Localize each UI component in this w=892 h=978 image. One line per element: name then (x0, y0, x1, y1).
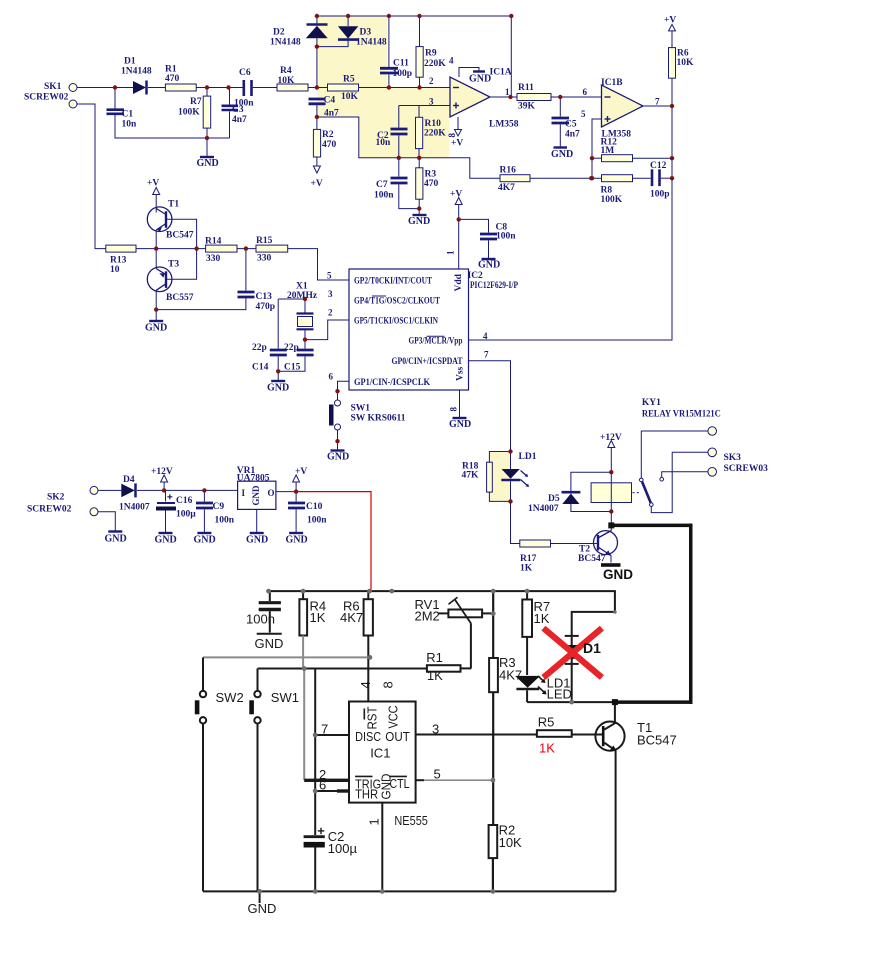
svg-text:5: 5 (327, 271, 332, 281)
svg-text:4: 4 (358, 681, 373, 688)
svg-text:BC557: BC557 (166, 293, 194, 303)
svg-text:7: 7 (655, 97, 660, 107)
svg-text:3: 3 (429, 97, 434, 107)
svg-text:8: 8 (449, 407, 459, 412)
capacitor C15 22p (304, 340, 306, 349)
svg-text:1: 1 (367, 818, 382, 825)
svg-text:C1: C1 (122, 110, 134, 120)
wire pin6 THR (315, 790, 349, 792)
optocoupler LD1 box (489, 452, 511, 501)
svg-text:1N4148: 1N4148 (270, 38, 301, 48)
svg-text:1K: 1K (520, 564, 533, 574)
svg-text:1K: 1K (427, 668, 443, 683)
svg-text:4n7: 4n7 (565, 130, 580, 140)
svg-text:R2: R2 (322, 130, 334, 140)
wire bottom ground rail (203, 890, 616, 892)
diode D5 1N4007 (571, 472, 611, 491)
svg-text:R16: R16 (500, 166, 517, 176)
svg-text:PIC12F629-I/P: PIC12F629-I/P (470, 281, 518, 291)
thick wire relay to LED net (610, 524, 693, 528)
svg-text:C16: C16 (176, 496, 193, 506)
diode D3 1N4148 (347, 16, 349, 26)
capacitor C9 100n (203, 490, 205, 501)
diode D2 1N4148 (316, 16, 318, 24)
svg-text:100µ: 100µ (328, 841, 358, 856)
resistor R3 470 (418, 158, 420, 168)
svg-text:GP5/T1CKI/OSC1/CLKIN: GP5/T1CKI/OSC1/CLKIN (354, 316, 438, 326)
svg-text:+V: +V (450, 190, 462, 200)
svg-text:SW1: SW1 (271, 690, 299, 705)
svg-text:C11: C11 (393, 59, 409, 69)
yellow highlight region (317, 16, 449, 158)
svg-text:47K: 47K (462, 471, 480, 481)
wire SW1/R4/R1 node (258, 668, 427, 670)
transistor T1 BC547 (147, 207, 172, 232)
relay armature (641, 431, 708, 478)
LED in LD1 (510, 452, 512, 470)
capacitor C10 100n (295, 492, 297, 502)
resistor R7 100K (206, 88, 208, 97)
svg-text:+12V: +12V (600, 433, 622, 443)
transistor T3 BC557 (147, 267, 172, 292)
svg-text:GND: GND (603, 567, 633, 582)
IC1 NE555 box (349, 702, 416, 803)
svg-text:470: 470 (424, 179, 439, 189)
svg-text:D2: D2 (273, 28, 285, 38)
svg-text:GND: GND (248, 901, 277, 916)
resistor R14 330 (206, 245, 237, 252)
svg-text:6: 6 (319, 778, 326, 793)
svg-text:3: 3 (432, 722, 439, 737)
svg-text:R4: R4 (280, 66, 292, 76)
svg-text:GND: GND (145, 323, 167, 334)
svg-text:10K: 10K (278, 76, 296, 86)
potentiometer RV1 2M2 (438, 612, 448, 614)
relay NO contact (660, 477, 664, 481)
svg-text:GND: GND (194, 535, 216, 546)
svg-text:RELAY VR15M121C: RELAY VR15M121C (642, 410, 721, 420)
svg-text:20MHz: 20MHz (287, 291, 318, 301)
+12V above C16 (161, 475, 168, 482)
+V above R6 (669, 24, 676, 31)
svg-text:O: O (268, 488, 275, 498)
svg-text:2: 2 (429, 76, 434, 86)
resistor R1 1K (427, 665, 461, 672)
svg-text:8: 8 (381, 681, 396, 688)
capacitor C2 100u (318, 830, 325, 832)
svg-text:10K: 10K (341, 92, 359, 102)
svg-text:1N4007: 1N4007 (119, 503, 150, 513)
transistor T1 BC547 (595, 722, 624, 751)
svg-text:4: 4 (483, 331, 488, 341)
wire pin1 GND (381, 803, 383, 892)
svg-text:10n: 10n (122, 120, 138, 130)
red cross over D1 (543, 628, 602, 677)
capacitor 100n bypass (269, 591, 271, 601)
capacitor C6 100n (243, 80, 246, 96)
wire node down to TRIG (gray) (303, 669, 305, 781)
svg-text:DISC: DISC (355, 729, 381, 744)
svg-text:R15: R15 (256, 236, 273, 246)
svg-text:3: 3 (328, 289, 333, 299)
svg-text:GND: GND (105, 534, 127, 545)
svg-text:220K: 220K (424, 129, 446, 139)
svg-text:R5: R5 (538, 715, 555, 730)
wire IC1B output (643, 105, 672, 107)
capacitor C4 4n7 (309, 98, 326, 101)
wire LED row to T1 collector (527, 701, 615, 703)
ground below C14 (271, 380, 285, 382)
svg-text:8: 8 (447, 133, 457, 138)
svg-text:22p: 22p (252, 343, 267, 353)
resistor R2 470 (316, 117, 318, 129)
capacitor C1 10n (114, 88, 116, 109)
svg-text:BC547: BC547 (166, 231, 194, 241)
resistor R5 10K (328, 84, 359, 91)
LED arrows (538, 676, 545, 682)
ground at IC1A pin4 (459, 68, 479, 78)
junction thick net (608, 522, 614, 528)
wire IC1B +input down (592, 119, 602, 178)
svg-text:6: 6 (329, 372, 334, 382)
svg-text:KY1: KY1 (642, 398, 661, 408)
LED light arrows (521, 471, 528, 477)
resistor R4 10K (277, 84, 308, 91)
svg-text:R9: R9 (425, 49, 437, 59)
svg-text:Vdd: Vdd (454, 273, 464, 291)
svg-text:2M2: 2M2 (415, 609, 440, 624)
svg-text:GND: GND (551, 149, 573, 160)
svg-text:100p: 100p (650, 190, 670, 200)
svg-text:LM358: LM358 (489, 120, 519, 130)
svg-text:R17: R17 (520, 554, 537, 564)
svg-text:SCREW03: SCREW03 (724, 464, 769, 474)
svg-text:7: 7 (484, 350, 489, 360)
svg-text:100n: 100n (307, 516, 327, 526)
resistor R13 10 (106, 245, 136, 252)
+V above C10 (293, 475, 300, 482)
wire SK2 pin2 ground (98, 512, 115, 531)
svg-text:R3: R3 (425, 170, 437, 180)
wire SK1 pin1 to D1 (77, 87, 133, 89)
capacitor C11 100p (388, 16, 390, 67)
capacitor C7 100n (398, 158, 400, 177)
svg-text:220K: 220K (424, 59, 446, 69)
resistor R8 100K (602, 175, 633, 182)
capacitor C12 100p (651, 169, 654, 186)
LED LD1 (515, 676, 540, 688)
svg-text:100n: 100n (496, 232, 516, 242)
svg-text:D1: D1 (124, 57, 136, 67)
svg-text:THR: THR (355, 787, 378, 802)
resistor R17 1K (520, 540, 551, 547)
svg-text:GND: GND (379, 774, 394, 800)
svg-text:GND: GND (267, 383, 289, 394)
ground stub bottom (259, 891, 261, 903)
svg-text:C15: C15 (284, 363, 301, 373)
diode D1 1N4148 (133, 81, 146, 94)
svg-text:GND: GND (469, 74, 491, 85)
svg-text:100n: 100n (374, 191, 394, 201)
wire pin3 net (399, 105, 450, 107)
svg-text:SK1: SK1 (44, 82, 62, 92)
switch SW1 KRS0611 (335, 400, 341, 406)
wire R4 to node (gray) (302, 636, 304, 669)
svg-text:I: I (242, 488, 246, 498)
svg-text:+V: +V (664, 16, 676, 26)
wire node to DISC/THR (314, 669, 316, 836)
resistor R7 1K (526, 591, 528, 599)
resistor R2 10K (489, 825, 498, 858)
svg-text:C13: C13 (256, 292, 273, 302)
svg-text:GND: GND (246, 535, 268, 546)
capacitor C8 100n (459, 219, 489, 232)
wire pin5 CTL (416, 779, 424, 781)
svg-text:C5: C5 (565, 120, 577, 130)
svg-text:10: 10 (110, 265, 120, 275)
svg-text:D3: D3 (360, 28, 372, 38)
svg-text:Vss: Vss (456, 366, 466, 381)
capacitor C3 4n7 (229, 88, 231, 105)
wire PIC pin8 ground (459, 390, 461, 417)
svg-text:GP1/CIN-/ICSPCLK: GP1/CIN-/ICSPCLK (354, 378, 431, 388)
resistor R12 1M (592, 157, 602, 159)
svg-text:1K: 1K (539, 741, 555, 756)
ground below R3 (418, 209, 420, 214)
svg-text:R5: R5 (343, 75, 355, 85)
bottom labels (216, 597, 677, 916)
overbar T1G (372, 295, 386, 297)
overbars IC1 (355, 775, 372, 777)
svg-text:4n7: 4n7 (324, 109, 339, 119)
wire top supply rail (269, 591, 615, 702)
svg-text:1K: 1K (310, 610, 326, 625)
svg-text:R11: R11 (518, 83, 534, 93)
svg-text:4: 4 (449, 56, 454, 66)
+V above T1 (153, 188, 160, 195)
svg-text:R14: R14 (205, 237, 222, 247)
svg-text:D5: D5 (548, 494, 560, 504)
svg-text:GP3/MCLR/Vpp: GP3/MCLR/Vpp (409, 337, 463, 347)
svg-text:10K: 10K (499, 835, 522, 850)
svg-text:C14: C14 (252, 363, 269, 373)
connector SK1 SCREW02 (69, 84, 77, 92)
svg-text:GND: GND (197, 158, 219, 169)
ground below R7 (206, 138, 208, 156)
wire +V vertical through R3 R2 (492, 591, 494, 658)
wire PIC pin7 to LD1 (469, 361, 511, 452)
svg-text:22p: 22p (284, 343, 299, 353)
svg-text:T3: T3 (168, 260, 179, 270)
resistor R16 4K7 (500, 175, 530, 182)
IC2 PIC12F629 box (349, 269, 469, 390)
diode D4 1N4007 (121, 484, 135, 498)
red wire from +V to 555 rail (296, 492, 371, 591)
svg-text:R8: R8 (601, 186, 613, 196)
wire PIC pin6 to SW1 (338, 381, 350, 400)
svg-text:SCREW02: SCREW02 (24, 93, 69, 103)
svg-text:D1: D1 (583, 640, 601, 656)
resistor R6 10K (669, 48, 676, 79)
ground below T3 (149, 320, 163, 322)
svg-text:330: 330 (206, 254, 221, 264)
wire SW2 to RST (gray) (203, 656, 370, 658)
svg-text:100n: 100n (234, 99, 254, 109)
svg-text:100µ: 100µ (176, 510, 196, 520)
op-amp IC1A LM358 (450, 77, 490, 117)
wire top feedback rail (317, 16, 511, 97)
svg-text:SK3: SK3 (724, 453, 742, 463)
capacitor C16 100u electrolytic (167, 496, 172, 498)
svg-text:T1: T1 (168, 200, 179, 210)
svg-text:39K: 39K (518, 102, 536, 112)
svg-text:GND: GND (327, 452, 349, 463)
svg-text:GND: GND (255, 636, 284, 651)
svg-text:C7: C7 (376, 180, 388, 190)
svg-text:D4: D4 (123, 475, 135, 485)
svg-text:IC1B: IC1B (601, 78, 623, 88)
svg-text:1N4148: 1N4148 (121, 67, 152, 77)
svg-text:470p: 470p (256, 302, 276, 312)
svg-text:+V: +V (311, 179, 323, 189)
junction dots top schematic (113, 14, 674, 514)
svg-text:SW1: SW1 (351, 404, 371, 414)
svg-text:UA7805: UA7805 (237, 474, 270, 484)
svg-text:6: 6 (583, 87, 588, 97)
svg-text:5: 5 (581, 109, 586, 119)
svg-text:LD1: LD1 (519, 452, 537, 462)
svg-text:T2: T2 (579, 545, 590, 555)
svg-text:1N4007: 1N4007 (528, 504, 559, 514)
resistor R3 4K7 (489, 658, 498, 692)
svg-text:GND: GND (155, 535, 177, 546)
svg-text:100n: 100n (215, 516, 235, 526)
svg-text:R10: R10 (425, 119, 442, 129)
transistor T2 BC547 (594, 531, 618, 555)
ground below SW1 (331, 449, 345, 451)
svg-text:VCC: VCC (386, 706, 401, 729)
wire pin7 DISC (315, 734, 349, 736)
wire IC1A output (490, 96, 517, 98)
svg-text:100K: 100K (178, 108, 200, 118)
pushbutton SW2 (200, 691, 206, 697)
svg-text:C4: C4 (324, 96, 336, 106)
regulator VR1 UA7805 (238, 481, 276, 509)
svg-text:GP4/T1G/OSC2/CLKOUT: GP4/T1G/OSC2/CLKOUT (354, 296, 441, 306)
wire pin3 OUT (416, 734, 603, 736)
ground below C5 (554, 146, 568, 148)
+V symbol below R2 (313, 166, 320, 173)
svg-text:C10: C10 (306, 502, 323, 512)
svg-text:NE555: NE555 (394, 813, 428, 828)
wire SK2 pin1 to D4 (98, 489, 121, 491)
svg-text:+V: +V (147, 179, 159, 189)
capacitor C2 10n (398, 106, 400, 128)
svg-text:2: 2 (328, 308, 333, 318)
svg-text:IC1: IC1 (370, 746, 390, 761)
resistor R18 47K (489, 452, 510, 463)
resistor R9 220K (419, 16, 421, 47)
capacitor C5 4n7 (559, 97, 561, 117)
svg-text:C6: C6 (239, 68, 251, 78)
svg-text:SCREW02: SCREW02 (27, 505, 72, 515)
svg-text:1: 1 (446, 250, 456, 255)
wire LD1 to R17 (511, 501, 520, 543)
svg-text:RST: RST (365, 706, 380, 729)
resistor R10 220K (418, 106, 420, 118)
svg-text:4K7: 4K7 (498, 183, 515, 193)
svg-text:SK2: SK2 (47, 493, 65, 503)
resistor R15 330 (256, 245, 288, 252)
diode D1 (crossed out) (565, 635, 579, 637)
svg-text:GND: GND (449, 419, 471, 430)
svg-text:SW2: SW2 (216, 690, 244, 705)
svg-text:R6: R6 (677, 49, 689, 59)
svg-text:GND: GND (478, 260, 500, 271)
junction dots bottom (257, 589, 617, 894)
svg-text:1: 1 (505, 87, 510, 97)
capacitor C14 22p (277, 299, 279, 349)
svg-text:+12V: +12V (151, 467, 173, 477)
svg-text:4n7: 4n7 (232, 115, 247, 125)
svg-text:5: 5 (434, 767, 441, 782)
overbar MCLR (427, 335, 445, 337)
svg-text:IC2: IC2 (468, 271, 484, 281)
resistor R6 4K7 (367, 591, 369, 599)
svg-text:100n: 100n (246, 612, 275, 627)
ground below C8 (482, 258, 496, 260)
svg-text:BC547: BC547 (578, 554, 606, 564)
svg-text:SW KRS0611: SW KRS0611 (351, 414, 406, 424)
svg-text:R1: R1 (165, 65, 177, 75)
svg-text:BC547: BC547 (637, 733, 677, 748)
resistor R4 1K (302, 591, 304, 599)
svg-text:GP0/CIN+/ICSPDAT: GP0/CIN+/ICSPDAT (392, 357, 464, 367)
op-amp IC1B LM358 (602, 85, 644, 127)
svg-text:100p: 100p (393, 69, 413, 79)
svg-text:R7: R7 (190, 97, 202, 107)
svg-text:C12: C12 (650, 161, 667, 171)
svg-text:+V: +V (451, 139, 463, 149)
svg-text:470: 470 (322, 140, 337, 150)
connector SK3 SCREW03 terminals (708, 427, 717, 436)
resistor R11 39K (517, 94, 551, 101)
svg-text:100K: 100K (601, 195, 623, 205)
+V above C8 (455, 198, 462, 205)
svg-text:GND: GND (286, 535, 308, 546)
+V at IC1A pin8 (457, 117, 459, 130)
svg-text:10K: 10K (677, 58, 695, 68)
svg-text:470: 470 (165, 74, 180, 84)
svg-text:1M: 1M (601, 146, 615, 156)
svg-text:GP2/T0CKI/INT/COUT: GP2/T0CKI/INT/COUT (354, 277, 433, 287)
relay KY1 coil (591, 483, 631, 503)
svg-text:7: 7 (321, 722, 328, 737)
pushbutton SW1 (254, 691, 260, 697)
svg-text:LED: LED (547, 687, 572, 702)
svg-text:C9: C9 (213, 502, 225, 512)
svg-text:GND: GND (408, 216, 430, 227)
svg-text:4K7: 4K7 (340, 610, 363, 625)
svg-text:1K: 1K (534, 611, 550, 626)
ground below T2 (601, 563, 621, 567)
ground below 100n (257, 633, 282, 635)
capacitor C13 470p (245, 249, 247, 291)
svg-text:1N4148: 1N4148 (356, 38, 387, 48)
resistor R5 1K (537, 730, 572, 737)
svg-text:OUT: OUT (385, 729, 410, 744)
+12V above relay (608, 441, 615, 448)
